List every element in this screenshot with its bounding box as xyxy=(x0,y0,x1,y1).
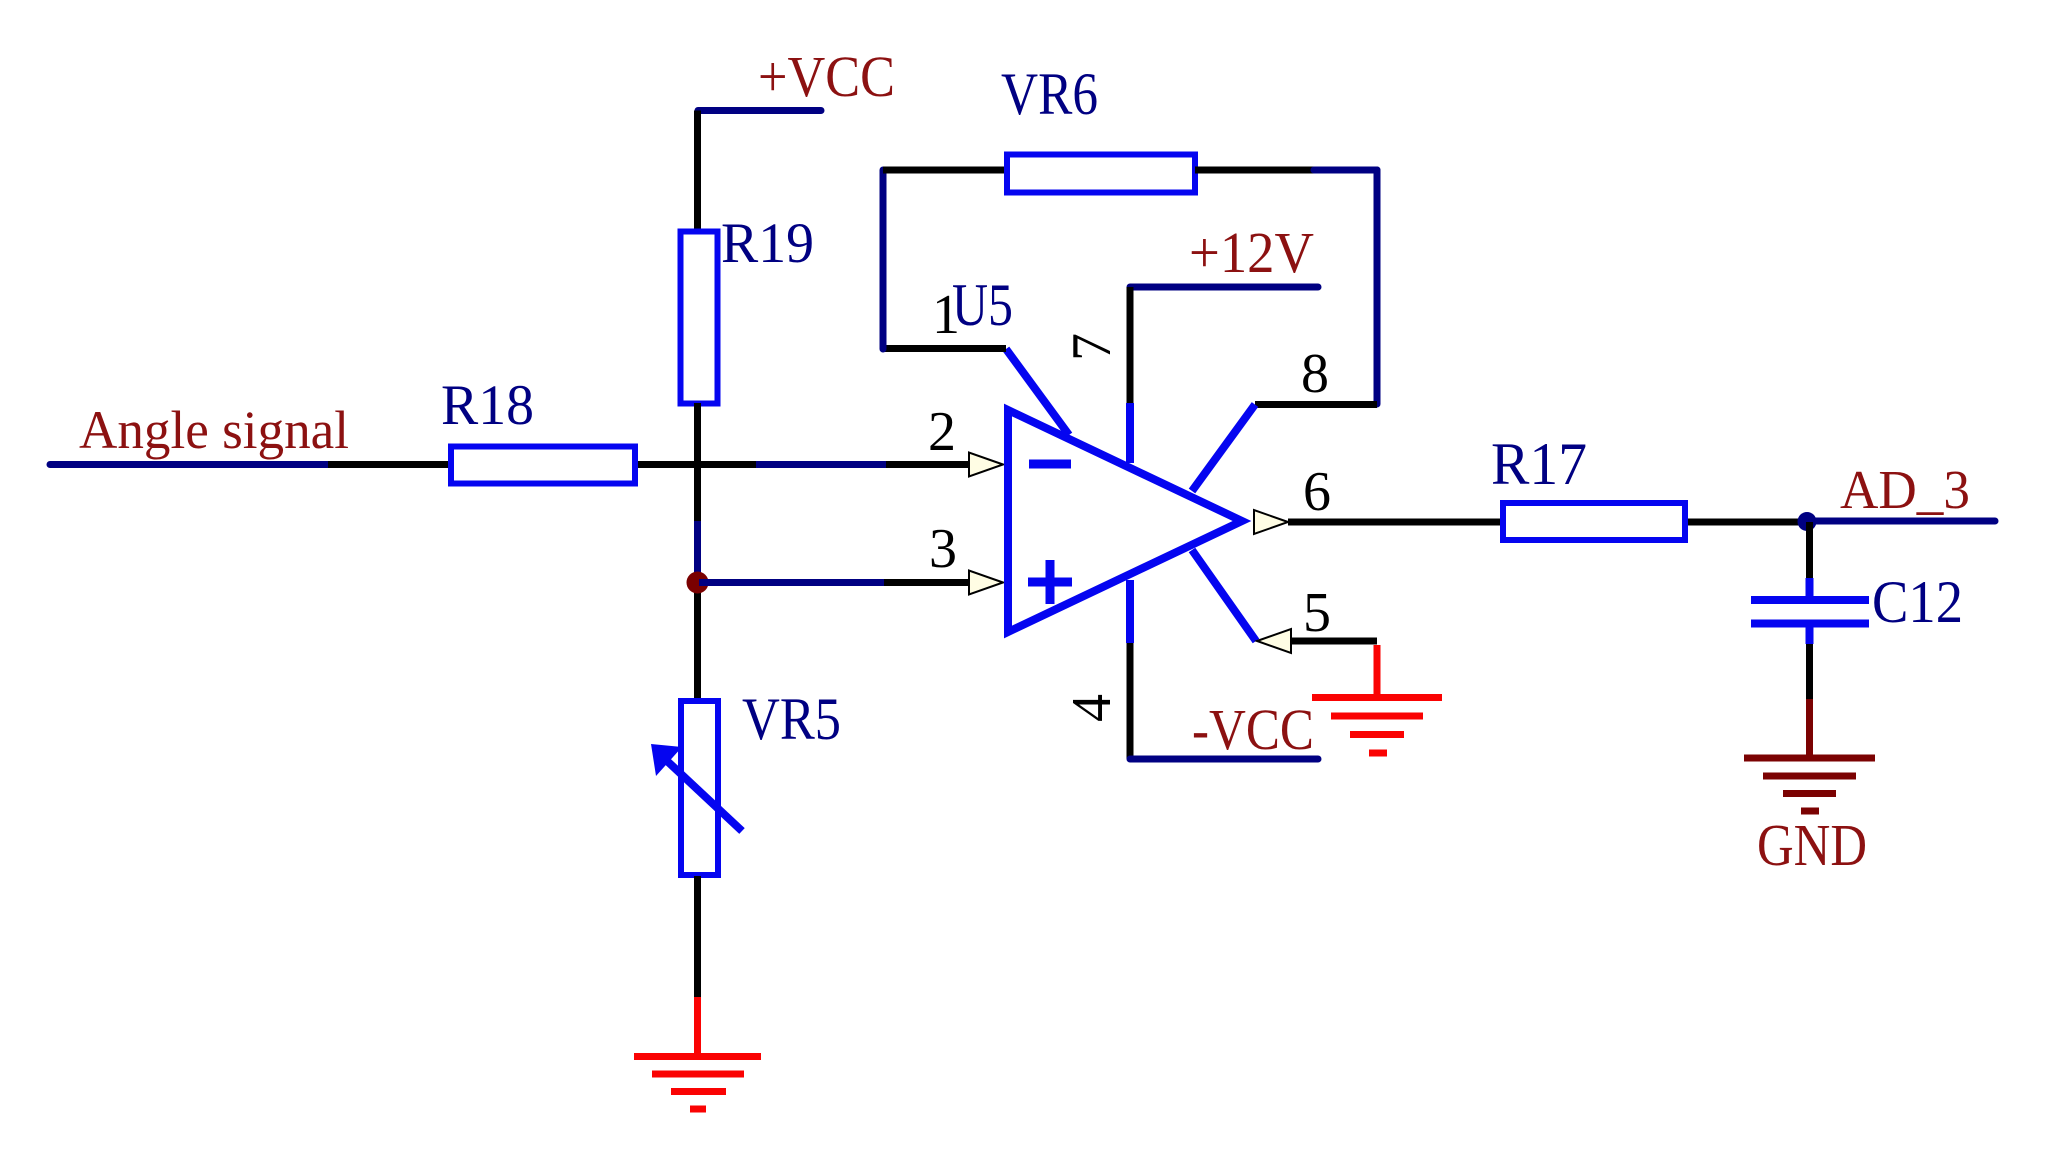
wire VR5 ground red vertical xyxy=(694,997,701,1053)
pin 3 arrow xyxy=(969,571,1003,595)
svg-text:-VCC: -VCC xyxy=(1192,697,1314,762)
svg-text:VR5: VR5 xyxy=(742,686,841,752)
wire VR6 right xyxy=(1195,167,1314,174)
wire VR5 to ground black xyxy=(694,876,701,997)
svg-text:3: 3 xyxy=(929,518,957,580)
wire pin5 ground red vertical xyxy=(1374,645,1381,694)
svg-text:4: 4 xyxy=(1061,694,1123,722)
svg-text:Angle signal: Angle signal xyxy=(79,400,349,460)
wire +VCC horizontal xyxy=(698,107,821,114)
resistor R18 xyxy=(451,447,635,484)
svg-text:7: 7 xyxy=(1061,333,1123,361)
ground red (VR5) xyxy=(634,1057,761,1110)
svg-text:8: 8 xyxy=(1301,343,1329,405)
resistor R17 xyxy=(1503,503,1685,540)
capacitor C12 xyxy=(1751,578,1869,644)
svg-text:U5: U5 xyxy=(952,272,1013,338)
pin 7 lead stub xyxy=(1126,403,1134,463)
svg-text:+12V: +12V xyxy=(1189,220,1314,285)
svg-text:R19: R19 xyxy=(721,212,814,275)
svg-text:R18: R18 xyxy=(441,374,534,437)
wire VR6 left xyxy=(883,167,1007,174)
wire node to C12 black vertical xyxy=(1806,522,1813,580)
wire R18 to op-amp pin2 xyxy=(638,461,970,468)
resistor VR5 xyxy=(681,701,718,875)
ground red (pin5) xyxy=(1312,698,1442,754)
wire C12 to GND maroon vertical xyxy=(1806,699,1813,755)
svg-text:6: 6 xyxy=(1303,461,1331,523)
wire pin1 horizontal xyxy=(883,345,1006,352)
wire AD_3 navy xyxy=(1807,518,1995,525)
pin 8 lead diagonal xyxy=(1192,405,1255,492)
node junction dot xyxy=(687,572,709,594)
svg-text:VR6: VR6 xyxy=(1001,61,1098,127)
op-amp plus input symbol xyxy=(1028,578,1072,587)
wire pin5 black xyxy=(1291,638,1377,645)
wire pin3 black xyxy=(884,579,970,586)
wire navy overlay pin2 xyxy=(756,461,886,468)
pin 5 arrow xyxy=(1257,629,1291,653)
wire input navy xyxy=(50,461,328,468)
wire +12V horizontal navy xyxy=(1130,284,1318,291)
wire R19 bottom to VR5 top vertical xyxy=(694,403,701,700)
wire pin3 navy xyxy=(699,579,884,586)
svg-text:+VCC: +VCC xyxy=(758,44,895,109)
wire input black to R18 xyxy=(328,461,449,468)
wire feedback right vertical navy xyxy=(1374,170,1381,404)
op-amp minus input symbol xyxy=(1029,460,1071,469)
op-amp U5 triangle xyxy=(1008,410,1242,632)
wire pin7 vertical black xyxy=(1127,287,1134,403)
node AD_3 junction dot xyxy=(1798,512,1817,531)
VR5 wiper arrow xyxy=(666,760,742,831)
wire -VCC horizontal navy xyxy=(1130,756,1318,763)
svg-text:GND: GND xyxy=(1757,812,1867,878)
pin 5 lead diagonal xyxy=(1192,550,1256,641)
wire pin1 vertical navy xyxy=(880,170,887,349)
pin 1 lead diagonal xyxy=(1006,349,1069,435)
pin 2 arrow xyxy=(969,453,1003,477)
pin 6 arrow xyxy=(1254,510,1288,534)
wire R17 to node xyxy=(1688,519,1807,526)
wire pin8 horizontal xyxy=(1255,401,1377,408)
wire C12 to GND black vertical xyxy=(1806,644,1813,699)
wire pin4 vertical black xyxy=(1127,643,1134,759)
wire navy overlay junction to pin3 branch xyxy=(694,521,701,583)
svg-text:5: 5 xyxy=(1303,582,1331,644)
svg-text:R17: R17 xyxy=(1491,431,1587,497)
pin 4 lead stub xyxy=(1126,580,1134,643)
resistor R19 xyxy=(681,232,718,404)
wire +VCC to R19 vertical xyxy=(694,111,701,233)
ground GND maroon xyxy=(1744,758,1875,811)
wire feedback right top navy xyxy=(1314,167,1377,174)
svg-text:AD_3: AD_3 xyxy=(1840,459,1970,520)
svg-text:2: 2 xyxy=(928,401,956,463)
svg-text:C12: C12 xyxy=(1872,569,1963,635)
resistor VR6 xyxy=(1007,155,1195,193)
wire pin6 to R17 xyxy=(1288,519,1501,526)
